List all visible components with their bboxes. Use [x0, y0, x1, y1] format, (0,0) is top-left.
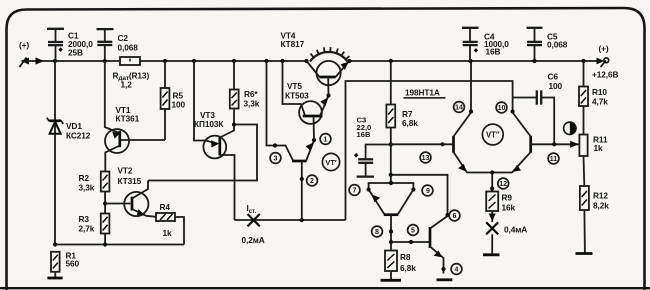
svg-text:1k: 1k	[594, 143, 604, 153]
IC pair left transistor	[454, 61, 472, 173]
svg-text:7: 7	[353, 188, 357, 195]
junction VD1/R1/bus	[53, 242, 57, 246]
svg-text:КТ503: КТ503	[285, 91, 309, 101]
wire: right pair collector riser (long vertical + top link)	[346, 81, 513, 220]
label C4 1000,0 16V	[484, 32, 509, 57]
wire: VT3 gate from rail	[194, 61, 217, 144]
resistor R12	[580, 186, 589, 254]
zener diode VD1	[47, 118, 63, 134]
junction rail-R7	[389, 59, 393, 63]
pin 8	[372, 226, 383, 237]
svg-text:11: 11	[550, 156, 558, 163]
svg-text:25В: 25В	[68, 48, 83, 58]
X mark 0,4mA	[486, 222, 498, 234]
svg-text:100: 100	[549, 81, 563, 91]
resistor R1	[51, 252, 60, 278]
svg-text:0,4мА: 0,4мА	[504, 225, 527, 235]
label R8 6,8k	[400, 252, 416, 273]
label Rdat(R13) 1,2	[113, 71, 150, 90]
svg-text:8,2k: 8,2k	[593, 201, 609, 211]
junction QA emitter / VT5 base (pin1 node)	[312, 138, 316, 142]
capacitor C2	[97, 29, 114, 61]
pin 9 node dot	[411, 187, 415, 191]
svg-text:0,068: 0,068	[118, 43, 139, 53]
label R4 1k	[160, 202, 173, 238]
junction QA base to Ist wire	[300, 218, 304, 222]
label VT5 KT503	[285, 81, 309, 101]
pin 9	[422, 185, 433, 196]
svg-text:R8: R8	[400, 252, 411, 262]
capacitor C3 (electrolytic)	[354, 145, 391, 177]
junction mirror base / Q564 base	[389, 240, 393, 244]
label 198NT1A with underline	[404, 88, 446, 98]
transistor VT4 (KT817)	[307, 61, 349, 96]
ground under Q564 emitter	[437, 278, 453, 281]
resistor R5	[161, 61, 170, 140]
wire: VT2 collector to VT3 source node	[148, 125, 257, 181]
svg-text:C2: C2	[118, 33, 129, 43]
svg-text:10: 10	[498, 105, 506, 112]
pin 12	[498, 178, 509, 189]
junction R3-bus	[103, 242, 107, 246]
svg-text:0,068: 0,068	[547, 40, 568, 50]
svg-text:4,7k: 4,7k	[592, 97, 608, 107]
input terminal (+) left	[19, 40, 29, 67]
junction rail-QA collector branch	[264, 59, 268, 63]
junction emitter bus center	[490, 170, 494, 174]
svg-text:VT5: VT5	[287, 81, 302, 91]
pin 14 node dot	[469, 109, 473, 113]
transistor VT5 (KT503)	[299, 96, 328, 141]
label C2 0,068	[118, 33, 139, 53]
pin 2	[307, 175, 318, 186]
svg-text:2: 2	[310, 178, 314, 185]
wire: VT3 upper lead to R6 node	[220, 125, 234, 138]
svg-text:КТ361: КТ361	[116, 114, 140, 124]
svg-text:R12: R12	[593, 191, 608, 201]
transistor QA (IC pins 1-2-3)	[292, 141, 314, 221]
svg-text:3,3k: 3,3k	[79, 183, 95, 193]
svg-text:C6: C6	[548, 72, 559, 82]
wiper arrow into R11	[570, 141, 579, 148]
ground under R12	[576, 252, 593, 255]
svg-text:2,7k: 2,7k	[79, 224, 95, 234]
IC mirror transistor (pins 7-8-9)	[369, 183, 414, 251]
resistor R10	[579, 61, 588, 135]
svg-text:R9: R9	[502, 193, 513, 203]
svg-text:0,2мА: 0,2мА	[242, 235, 265, 245]
ground under R1	[47, 277, 62, 280]
pin 3	[270, 153, 281, 164]
pin 4 node dot	[441, 267, 445, 271]
wire: left pair base	[391, 143, 454, 145]
resistor R8	[385, 251, 397, 281]
junction rail end at VT4 collector	[304, 59, 308, 63]
transistor VT1 (KT361, PNP)	[105, 129, 165, 172]
svg-text:1,2: 1,2	[121, 80, 133, 90]
svg-text:VT′: VT′	[325, 158, 336, 167]
pin 13	[420, 152, 431, 163]
svg-text:R3: R3	[79, 214, 90, 224]
output terminal (+) right	[597, 44, 609, 68]
label C5 0,068	[547, 32, 568, 50]
pin 13 node dot	[440, 142, 444, 146]
pin 7 node dot	[367, 187, 371, 191]
label R9 16k	[502, 193, 516, 213]
resistor R9	[486, 192, 498, 223]
junction rail-R6	[232, 59, 236, 63]
label VT2 KT315	[118, 166, 142, 187]
wire: R9 to ground	[491, 234, 493, 255]
junction rail-C5	[532, 59, 536, 63]
label R5 100	[172, 91, 186, 110]
matched pair mark VT''	[482, 124, 503, 145]
svg-text:+12,6В: +12,6В	[592, 70, 618, 80]
svg-text:5: 5	[411, 227, 415, 234]
pin 10 node dot	[510, 109, 514, 113]
svg-text:6: 6	[453, 213, 457, 220]
matched pair mark VT'	[322, 153, 339, 170]
svg-text:6,8k: 6,8k	[400, 263, 416, 273]
svg-text:16k: 16k	[502, 203, 516, 213]
label R1 560	[66, 251, 80, 269]
wire: emitter node to R9	[491, 173, 493, 192]
wire: R4 to bottom bus	[175, 217, 184, 245]
wire: output + rail (right segment)	[350, 60, 603, 62]
pin 10	[496, 102, 507, 113]
pin 11	[548, 153, 559, 164]
pin 2 node dot	[300, 177, 304, 181]
svg-text:КТ315: КТ315	[118, 176, 142, 186]
pin 4	[451, 264, 462, 275]
svg-text:R6*: R6*	[244, 89, 258, 99]
capacitor C6	[513, 90, 555, 144]
wire: VT5 collector from rail	[283, 61, 305, 115]
wire: VT2 base	[105, 203, 130, 205]
svg-text:VT2: VT2	[118, 166, 133, 176]
junction rail-VT3 gate	[192, 59, 196, 63]
junction rail-R10	[581, 59, 585, 63]
ground under R9	[483, 253, 500, 256]
svg-text:9: 9	[426, 188, 430, 195]
IC transistor Q564 (pins 5-6-4)	[430, 216, 448, 274]
wire: input + rail (left segment) with current arrow	[22, 57, 307, 64]
svg-text:R4: R4	[160, 202, 171, 212]
svg-text:КП103К: КП103К	[194, 119, 224, 129]
pin 5	[408, 225, 419, 236]
label VT3 KP103K	[194, 110, 224, 129]
wire: bottom bus	[54, 244, 184, 246]
pin 6 node dot	[445, 213, 449, 217]
pin 8 node dot	[389, 229, 393, 233]
svg-text:6,8k: 6,8k	[402, 118, 418, 128]
IC pair right transistor	[512, 113, 580, 173]
capacitor C1 (electrolytic)	[47, 29, 64, 61]
svg-text:1: 1	[324, 136, 328, 143]
junction R6/VT3 node	[232, 122, 236, 126]
junction R7-C3-pair base	[389, 142, 393, 146]
junction VT4 base / VT5 emitter	[326, 93, 330, 97]
resistor R6	[230, 61, 239, 125]
svg-text:16В: 16В	[357, 130, 371, 139]
label R7 6,8k	[402, 109, 418, 128]
svg-text:198НТ1А: 198НТ1А	[405, 88, 440, 98]
wire: R7 column to mirror node	[390, 145, 392, 184]
junction rail-R5	[163, 59, 167, 63]
svg-text:100: 100	[172, 100, 186, 110]
capacitor C4 (electrolytic)	[462, 28, 479, 61]
svg-text:3: 3	[274, 155, 278, 162]
pin 14	[454, 102, 465, 113]
junction mirror collector node	[389, 173, 393, 177]
junction R2/R3/VT2 base	[103, 201, 107, 205]
resistor R3	[101, 214, 110, 245]
svg-text:8: 8	[375, 229, 379, 236]
wire: mirror node to Q564 collector	[391, 175, 448, 216]
heatsink arc over VT4	[310, 47, 350, 61]
wire: Ist measuring wire with X mark	[235, 219, 346, 221]
label C6 100	[548, 72, 563, 92]
svg-text:R10: R10	[592, 87, 607, 97]
svg-text:КС212: КС212	[66, 131, 91, 141]
svg-text:16В: 16В	[486, 47, 501, 57]
svg-text:14: 14	[455, 104, 463, 111]
pin 1	[320, 134, 331, 145]
label VT1 KT361	[116, 105, 140, 124]
wire: QA collector branch from rail	[267, 61, 293, 160]
label R3 2,7k	[79, 214, 95, 234]
resistor R4 (horizontal)	[156, 213, 175, 221]
wire: base link to Q564	[391, 241, 430, 243]
svg-text:560: 560	[66, 259, 80, 269]
X mark 0,2mA	[248, 214, 260, 226]
svg-text:(+): (+)	[19, 40, 29, 50]
junction rail start at VT4 emitter	[347, 59, 351, 63]
resistor R13 (Rdat) in series	[120, 57, 140, 65]
svg-text:12: 12	[499, 181, 507, 188]
svg-text:3,3k: 3,3k	[244, 99, 260, 109]
adjustment mark (half-filled circle)	[564, 122, 576, 134]
svg-text:VT″: VT″	[486, 130, 500, 139]
junction rail-C4-pair	[468, 59, 472, 63]
label VD1 KC212	[66, 121, 91, 141]
svg-text:1k: 1k	[163, 228, 173, 238]
svg-text:VD1: VD1	[66, 121, 82, 131]
label VT4 KT817	[281, 31, 305, 50]
wire: VD1 branch	[54, 61, 56, 245]
svg-text:КТ817: КТ817	[281, 39, 305, 49]
svg-text:R2: R2	[79, 173, 90, 183]
label R6* 3,3k	[244, 89, 260, 109]
potentiometer R11	[579, 135, 587, 187]
wire: VT3 lower lead down to Ist wire (crosses VT2 collector wire)	[220, 155, 235, 220]
pin 6	[449, 210, 460, 221]
pin 12 node dot	[490, 186, 494, 190]
junction rail-C1	[53, 59, 57, 63]
capacitor C5	[527, 28, 543, 61]
transistor VT3 (KP103K, JFET)	[203, 136, 226, 159]
label R12 8,2k	[593, 191, 609, 211]
label C3 22,0 16V	[357, 116, 372, 140]
svg-text:13: 13	[422, 155, 430, 162]
pin 5 node dot	[409, 240, 413, 244]
resistor R7	[386, 61, 395, 145]
label R11 1k	[593, 135, 608, 154]
label R2 3,3k	[79, 173, 95, 193]
pin 11 node dot	[552, 142, 556, 146]
wire: pair common emitter bus	[467, 172, 513, 174]
label R10 4,7k	[592, 87, 608, 107]
ground under R8	[381, 279, 402, 282]
svg-text:4: 4	[455, 266, 459, 273]
junction rail-VT5 collector	[280, 59, 284, 63]
wire: VT1 emitter from rail	[105, 61, 119, 133]
svg-text:(+): (+)	[599, 44, 609, 54]
pin 7	[349, 185, 360, 196]
junction rail-C2	[103, 59, 107, 63]
label C1 2000,0 25V	[68, 31, 93, 58]
resistor R2	[101, 172, 110, 214]
junction pin3 node	[273, 143, 277, 147]
transistor VT2 (KT315, NPN)	[124, 181, 156, 217]
